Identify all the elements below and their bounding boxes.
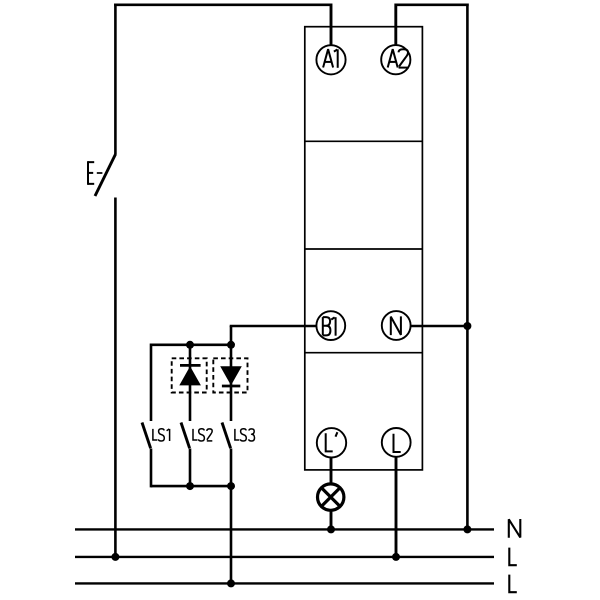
wire LS rail down to L bus [230, 486, 233, 583]
switch LS3 lever [222, 423, 231, 449]
terminal L circle [382, 428, 411, 457]
switch E- contact lever [95, 154, 116, 196]
terminal A1 circle [316, 45, 345, 74]
junction dot LS2 bottom [186, 482, 194, 490]
wire B1 vertical drop to LS rail [230, 326, 233, 346]
lamp E1 cross stroke 1 [321, 488, 340, 507]
device outline rectangle [305, 27, 423, 470]
bus line L (middle) [75, 556, 494, 558]
label N [391, 316, 401, 335]
wire right vertical rail [466, 4, 469, 530]
wire top feed horizontal right (A2 to right rail) [396, 4, 469, 7]
label L (middle bus) [509, 548, 517, 566]
wire left vertical upper (to switch E) [114, 4, 117, 155]
wire lamp to N bus [330, 511, 333, 529]
wire LS3 branch lower [230, 449, 233, 488]
label E [88, 161, 94, 185]
label A1 [323, 49, 338, 68]
wire B1 horizontal (to diode network) [230, 325, 317, 328]
junction dot L wire on L bus [392, 553, 400, 561]
wire A2 terminal drop [394, 4, 397, 46]
dashed box around diode V2 [213, 358, 247, 392]
dashed box around diode V1 [172, 358, 207, 392]
label L' [326, 432, 338, 451]
wire A1 terminal drop [330, 4, 333, 46]
junction dot lamp on N bus [327, 525, 335, 533]
wire L terminal down to L bus [395, 457, 398, 557]
terminal B1 circle [316, 311, 345, 340]
wire L' to lamp [330, 458, 333, 483]
label A2 [388, 49, 408, 67]
lamp E1 circle [318, 484, 344, 510]
label LS1 [153, 429, 170, 441]
junction dot on lower L bus [227, 579, 235, 587]
wire N terminal to right rail [411, 325, 468, 328]
wire LS1 branch lower [150, 449, 153, 488]
switch LS2 lever [181, 423, 190, 449]
wire LS top rail [151, 343, 231, 346]
wire left vertical lower (switch to L bus) [114, 198, 117, 558]
wire LS1 branch upper [150, 344, 153, 422]
bus line L (bottom) [75, 582, 494, 584]
label L (bottom bus) [509, 575, 517, 593]
diode V2 cathode bar [222, 385, 240, 388]
label N (bus) [509, 519, 521, 538]
junction dot LS3 bottom [227, 482, 235, 490]
label L (terminal) [394, 434, 401, 452]
junction dot E branch on L bus [111, 553, 119, 561]
wire LS2 branch lower [189, 449, 192, 488]
device section divider 2 [305, 248, 423, 250]
terminal A2 circle [381, 45, 410, 74]
junction dot LS2 top [186, 341, 194, 349]
wire LS3 branch upper (through diode V2) [230, 344, 233, 422]
label LS3 [235, 429, 255, 441]
switch LS1 lever [142, 423, 151, 449]
device section divider 1 [305, 140, 423, 142]
label E dash (actuator link) [97, 172, 103, 174]
wire top feed horizontal left (L to A1) [114, 4, 331, 7]
diode V1 cathode bar [180, 364, 201, 367]
junction dot right rail on N bus [463, 525, 471, 533]
label B1 [323, 317, 336, 336]
device section divider 3 [305, 352, 423, 354]
junction dot N wire / right rail [463, 322, 471, 330]
wire LS2 branch upper (through diode V1) [189, 344, 192, 422]
terminal L' circle [317, 428, 346, 457]
terminal N circle [382, 311, 411, 340]
label LS2 [193, 429, 212, 441]
diode V1 triangle (conducts up) [179, 366, 201, 385]
wire LS bottom rail [151, 485, 231, 488]
diode V2 triangle (conducts down) [220, 366, 242, 385]
bus line N [75, 528, 494, 530]
junction dot LS3 top [227, 341, 235, 349]
lamp E1 cross stroke 2 [321, 488, 340, 507]
